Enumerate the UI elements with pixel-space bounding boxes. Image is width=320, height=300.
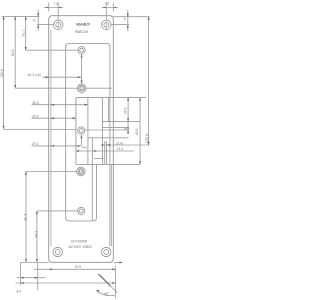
svg-text:ACTIEV V38IV: ACTIEV V38IV <box>69 245 93 249</box>
right long dim line <box>148 17 150 145</box>
svg-text:9048T-10H: 9048T-10H <box>75 30 88 34</box>
ext line y145 <box>105 144 150 146</box>
faceplate outline <box>49 16 114 263</box>
hole spacing dim C1-C2 <box>81 54 83 83</box>
hidden body edge right <box>111 164 113 246</box>
svg-text:8.4: 8.4 <box>17 290 22 294</box>
left small dim line <box>37 10 39 31</box>
C3 stub arrow <box>80 135 82 138</box>
ext rectA top right <box>102 96 146 98</box>
ext latch line right <box>102 137 128 139</box>
svg-text:65.8: 65.8 <box>135 128 139 135</box>
36.3 arrows <box>51 104 54 106</box>
svg-text:80.4: 80.4 <box>24 214 28 221</box>
28.3 leader arrows <box>46 76 49 78</box>
leader into C2 <box>15 87 77 89</box>
svg-text:7.5: 7.5 <box>54 2 59 6</box>
screw hole top-right <box>102 20 111 29</box>
center hole C4 <box>77 167 86 176</box>
bottom-left dim 80.4 <box>25 172 27 263</box>
svg-text:ASSA ABLOY: ASSA ABLOY <box>76 23 90 27</box>
body step line <box>76 163 140 165</box>
bottom right ext x115.4 <box>114 266 116 298</box>
left long dim line 1 <box>3 16 5 128</box>
svg-text:7.5: 7.5 <box>105 2 110 6</box>
lip ramp lines <box>107 97 109 121</box>
top dim 7.5 right dim line <box>102 7 118 9</box>
top dim 7.5 left ext lines <box>49 3 59 19</box>
leader into C4 <box>26 171 77 173</box>
right long dim arrows <box>148 17 150 20</box>
inner edge x92.3 <box>91 138 93 221</box>
25.9 arrows <box>127 97 129 100</box>
left long dims top arrows <box>3 16 5 19</box>
29.3 arrows <box>51 145 54 147</box>
strike body outline <box>66 44 110 247</box>
leader into C5 <box>37 210 78 212</box>
svg-text:8: 8 <box>124 128 128 130</box>
svg-text:9: 9 <box>124 17 126 21</box>
left long dim line 3 <box>25 16 27 50</box>
svg-text:25.9: 25.9 <box>123 107 127 114</box>
bottom ext x37.7 <box>37 263 39 291</box>
leader 24.3 <box>32 117 76 119</box>
8 arrows <box>127 127 129 130</box>
svg-text:50.1: 50.1 <box>22 30 26 37</box>
3.4 arrows <box>102 144 105 146</box>
right dim 25.9 line <box>127 97 129 134</box>
24.3 arrows <box>51 117 54 119</box>
screw hole bottom-right <box>102 247 111 256</box>
svg-text:24.3: 24.3 <box>32 115 39 119</box>
bottom small dim arrows <box>21 277 24 279</box>
plate top ext right <box>113 16 150 18</box>
svg-text:21.3: 21.3 <box>117 147 124 151</box>
center hole C1 <box>78 47 85 54</box>
29.3 ext right <box>82 146 87 148</box>
80.4 arrows <box>25 172 27 175</box>
leader 36.3 <box>32 104 88 106</box>
center hole C2 <box>77 84 86 93</box>
ext from C2 right <box>86 87 112 89</box>
screw hole bottom-left <box>53 247 62 256</box>
57.6 arrows <box>49 268 52 270</box>
arrowheads <box>3 7 150 292</box>
ext x106.6 <box>106 141 108 164</box>
chamfer thin diagonal <box>111 286 118 293</box>
svg-text:152.4: 152.4 <box>0 69 4 78</box>
leader 29.3 <box>32 145 81 147</box>
dim 21.3 line <box>76 150 134 152</box>
ext line to C3 level <box>4 129 76 131</box>
keeper pocket rect A <box>76 97 103 164</box>
center hole C3 <box>78 127 85 134</box>
plate bottom ext left <box>20 262 48 264</box>
screw hole top-left ticks <box>57 19 59 31</box>
svg-text:(3.4): (3.4) <box>116 141 123 145</box>
chamfer angle arc <box>96 291 114 296</box>
65.8 arrows <box>139 97 141 100</box>
bottom width dim 57.6 <box>34 268 115 270</box>
svg-text:HCV-CEPM8: HCV-CEPM8 <box>71 240 87 244</box>
svg-text:85.8: 85.8 <box>11 49 15 56</box>
leader 29.3 junction <box>80 135 82 146</box>
top dim 7.5 right ext lines <box>106 3 113 19</box>
bottom long line y283 <box>16 282 116 284</box>
top dim 7.5 left dim line <box>44 7 63 9</box>
right small dim line <box>127 10 129 31</box>
44.3 arrows <box>36 211 38 214</box>
left long dims bottom arrows <box>3 126 5 129</box>
right dim 65.8 line <box>139 97 141 164</box>
screw hole top-right ticks <box>105 19 107 31</box>
ext x104.7 <box>104 141 106 164</box>
bottom small dim line <box>17 277 45 279</box>
bottom ext x20.6 <box>20 263 22 286</box>
hole center ext right <box>111 24 129 26</box>
svg-text:44.3: 44.3 <box>34 231 38 238</box>
leader into C1 <box>26 49 78 51</box>
left 9 arrows <box>37 13 39 16</box>
screw hole top-left <box>54 20 63 29</box>
center hole C5 <box>78 207 85 214</box>
ext from C3 right <box>85 129 129 131</box>
svg-text:36.3: 36.3 <box>32 101 39 105</box>
chamfer arc arrow <box>96 290 99 292</box>
detail line y158.5 <box>94 158 104 160</box>
shelf line <box>102 121 140 123</box>
svg-text:57.6: 57.6 <box>75 265 82 269</box>
pocket inner wall <box>87 97 89 164</box>
hole center ext left <box>37 24 54 26</box>
plate top ext left <box>2 15 40 17</box>
svg-text:29.3: 29.3 <box>32 142 39 146</box>
right 9 arrows <box>127 14 129 17</box>
latch detail line <box>88 138 102 142</box>
y283 arrows <box>21 282 24 284</box>
svg-text:28.3 (x4): 28.3 (x4) <box>27 73 40 77</box>
chamfer thick diagonal <box>99 274 111 286</box>
hidden body edge left <box>50 30 52 246</box>
spacing dim arrows C1-C2 <box>81 54 83 57</box>
svg-text:45°: 45° <box>104 292 110 296</box>
top 7.5 right arrows <box>104 7 107 9</box>
svg-text:9: 9 <box>33 18 35 22</box>
svg-text:120.6: 120.6 <box>145 134 149 144</box>
top 7.5 left arrows <box>46 7 49 9</box>
bottom-left dim 44.3 <box>36 211 38 262</box>
shelf line 2 <box>102 127 128 129</box>
plate bottom ext right <box>114 262 123 264</box>
21.3 arrows <box>76 150 79 152</box>
left long dim line 2 <box>14 16 16 88</box>
plate bottom ext arrow <box>119 262 122 264</box>
dim 28.3 x4 leader <box>42 76 81 78</box>
